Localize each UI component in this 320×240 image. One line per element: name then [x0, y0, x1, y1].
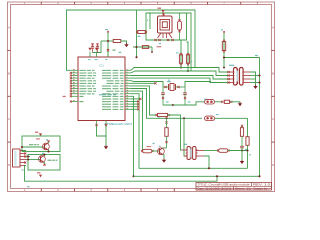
transistor T3	[158, 148, 165, 155]
ground at R1	[124, 44, 128, 47]
junction inner rail	[208, 167, 210, 169]
wire R1 to ground	[121, 41, 127, 44]
label Speaker 1	[29, 144, 39, 145]
IC1 right pin labels	[102, 70, 124, 71]
frame outer border	[8, 2, 275, 192]
label T3 value	[147, 146, 152, 147]
IC1 right pin wires	[125, 69, 131, 71]
label +5V speaker top	[35, 132, 38, 133]
junction T1 base net	[21, 146, 23, 148]
wire riser with resistor R11	[247, 118, 249, 136]
cross on reset net	[107, 49, 109, 51]
capacitor C3	[224, 100, 229, 103]
svg-text:ATMEGA8-16PI: ATMEGA8-16PI	[104, 122, 132, 126]
wire C8 to node	[228, 150, 248, 152]
top pin inner labels	[88, 58, 91, 61]
wire net row14 short	[131, 103, 138, 105]
wire R5 down through net crossing	[223, 58, 225, 68]
junction rail right	[258, 175, 260, 177]
junction at supply column	[223, 66, 225, 68]
wire net row9 to R9	[131, 91, 143, 151]
wire net row4 to U2 pin4	[131, 78, 228, 82]
transformer T2 winding right	[193, 147, 196, 160]
wire net row7 to R6 line	[131, 86, 156, 115]
wire T2 lower out to inner rail	[204, 156, 209, 168]
wire T4 base net	[26, 159, 40, 161]
wire crystal box left vertical	[136, 10, 138, 57]
IC1 bottom pin GND2	[105, 121, 107, 126]
label Q2 above crystal	[168, 80, 170, 81]
label R2 value	[138, 36, 141, 37]
junction R3 bottom	[180, 66, 182, 68]
label net below rail B	[27, 186, 30, 187]
wire T2 lower feed down	[184, 118, 187, 156]
T2 right pin stubs	[196, 150, 204, 152]
wire net row12 short	[131, 98, 140, 100]
wire reset branch horizontal	[101, 40, 113, 42]
wire gnd node feed to SJ1	[173, 102, 204, 105]
label Speaker 2	[48, 160, 58, 161]
fuse resistor R9 oval	[143, 149, 152, 153]
junction R4 bottom	[187, 70, 189, 72]
wire right column long vertical	[259, 58, 261, 177]
ground after C3	[238, 103, 242, 106]
wire net row15 short	[131, 106, 138, 108]
junction T2 lower feed	[183, 117, 185, 119]
label +5V speaker bottom	[37, 172, 40, 173]
supply arrow top of box	[161, 10, 164, 13]
wire to ground below IC1	[105, 136, 107, 146]
wire U2 right pins to ground column	[250, 72, 256, 86]
wire U2 right pins to long column	[250, 75, 260, 77]
resistor R1	[113, 40, 121, 43]
label U2	[229, 65, 234, 66]
T2 core line	[191, 148, 193, 159]
U2 left pin crosses	[227, 71, 229, 73]
B1 inner ring	[162, 22, 167, 28]
wire inner top loop	[146, 13, 191, 71]
wire speaker loop 1	[22, 136, 60, 152]
label R7	[159, 146, 161, 147]
svg-text:TITLE: Crumb8-USB audio module: TITLE: Crumb8-USB audio module	[198, 185, 251, 187]
wire stub inside box	[149, 13, 151, 29]
junction below crystal	[172, 104, 174, 106]
junction reset net	[107, 40, 109, 42]
U2 right pin stubs	[245, 71, 251, 73]
svg-text:Drawn by: Drawn by	[254, 188, 269, 190]
resistor R6	[158, 113, 168, 116]
wire node to ground	[241, 148, 243, 161]
wire rail B from X1 down and right	[25, 166, 218, 182]
ground right of U2	[253, 86, 257, 89]
B1 top pin stub	[163, 13, 165, 16]
svg-text:C: C	[8, 118, 10, 121]
wire joining bottom gnd pins	[97, 126, 107, 137]
IC1 left no-connect crosses	[70, 72, 72, 74]
wire net row13 short	[131, 101, 138, 103]
svg-text:Date: 22.03.2005 18:23:51: Date: 22.03.2005 18:23:51	[198, 187, 233, 190]
junction under R2	[135, 46, 137, 48]
wire net row8 to SJ2 line	[131, 89, 202, 119]
T2 rung marks	[186, 149, 188, 151]
wire R9 to T3 base	[152, 150, 159, 152]
resistor R2	[138, 31, 146, 34]
frame inner border	[11, 5, 272, 189]
supply arrow speaker top	[39, 133, 42, 136]
wire T2 upper out	[204, 150, 218, 152]
wire big top-left loop from IC1 pin 1	[67, 10, 196, 70]
label C1	[166, 101, 169, 102]
supply arrow AVCC	[95, 48, 98, 51]
solder jumper SJ2	[205, 116, 215, 120]
transformer U2 winding right	[240, 68, 244, 86]
wire net row6 short	[131, 82, 155, 84]
wire X1 pin3 to loop2	[26, 156, 30, 158]
capacitor C6	[96, 43, 98, 45]
wire speaker loop 2	[28, 155, 60, 171]
label T3	[153, 143, 155, 144]
B1 leg crosses	[154, 39, 156, 41]
wire net row11 to outer bottom rail	[131, 96, 134, 176]
X1 pin stubs	[20, 150, 26, 152]
net label +5V tick	[105, 29, 108, 30]
junction at outer rail	[132, 175, 134, 177]
B1 middle ring	[160, 20, 170, 31]
junction at bottom of left vertical	[135, 56, 137, 58]
solder jumper SJ1	[205, 100, 215, 104]
capacitor C1	[162, 87, 164, 93]
label T2	[184, 144, 187, 145]
wire T3 emitter to ground	[163, 155, 164, 160]
svg-text:C: C	[272, 118, 274, 121]
IC1 left pin wires	[71, 69, 79, 71]
label Q2	[167, 81, 171, 82]
capacitor C2	[184, 87, 186, 93]
wire T1 base net	[22, 146, 44, 148]
label X1	[22, 169, 24, 170]
IC1 inner value label	[99, 94, 116, 95]
label SJ1	[204, 99, 207, 100]
B1 legs	[158, 33, 173, 38]
frame row ticks left	[8, 49, 11, 51]
label B1 value	[157, 46, 162, 47]
label +5V top of box	[158, 8, 162, 9]
wire bottom outer rail	[134, 175, 260, 177]
resistor R7 vertical	[165, 121, 167, 123]
label R3	[176, 52, 179, 53]
T1 collector stub	[47, 142, 50, 144]
wire cap ground join	[163, 104, 185, 106]
connector X1 body	[13, 149, 21, 167]
junction at R5 bottom	[223, 56, 225, 58]
T2 inner teal marks	[190, 149, 192, 158]
capacitor C5	[91, 43, 93, 45]
wire SJ2 line continues to riser	[215, 117, 248, 119]
frame column ticks bottom	[40, 189, 42, 192]
resistor R5	[222, 42, 225, 51]
net label above R5	[221, 29, 223, 30]
svg-text:D: D	[8, 164, 10, 167]
supply net vertical above IC1	[107, 32, 109, 58]
wire net row2 to U2 pin2	[131, 71, 228, 76]
wire stub down from R8 line	[151, 47, 153, 52]
U2 left pin stubs	[228, 71, 233, 73]
wire net row1 to U2 pin1	[131, 68, 228, 73]
IC1 microcontroller ATMEGA8 box	[78, 57, 125, 121]
IC1 left pin AVCC	[71, 95, 79, 97]
label T4	[42, 153, 44, 154]
U2 inner teal marks	[236, 71, 238, 82]
frame column ticks top	[40, 2, 42, 5]
label R4	[191, 61, 193, 62]
supply arrow below speaker box	[39, 175, 42, 178]
IC1 bottom pin GND	[96, 121, 98, 126]
title block	[196, 182, 272, 190]
wire R4 column	[187, 42, 189, 71]
wire net row10 to inner bottom rail	[131, 94, 248, 169]
wire reset branch left down	[93, 41, 102, 53]
transformer T2 winding left	[187, 147, 190, 160]
resistor R8	[142, 46, 148, 49]
IC1 top pin AVCC	[96, 52, 98, 58]
resistor R4	[186, 55, 189, 64]
T1 emitter to loop bottom	[47, 150, 50, 152]
transistor T4	[39, 156, 46, 163]
U2 rung marks	[232, 71, 235, 73]
X1 pin crosses	[24, 152, 26, 154]
junction node C9	[241, 149, 243, 151]
transformer U2 winding left	[234, 68, 238, 86]
capacitor C8 oval	[219, 149, 228, 153]
supply column R5 vertical	[223, 32, 225, 58]
junction under R8 line	[151, 51, 153, 53]
svg-text:REV: 1.0: REV: 1.0	[253, 185, 271, 187]
label net speaker top	[36, 138, 40, 139]
wire under R2 horizontal	[133, 46, 152, 48]
svg-text:D: D	[272, 164, 274, 167]
IC1 top pin VCC	[89, 52, 91, 58]
label near riser	[249, 154, 251, 155]
supply arrow VCC	[88, 48, 91, 51]
label 10k teal	[119, 52, 122, 53]
junction riser	[246, 149, 248, 151]
T2 left pin stubs	[181, 149, 187, 151]
ground below T3	[162, 160, 166, 163]
frame row ticks right	[272, 49, 275, 51]
U2 core lines	[237, 69, 239, 85]
wire net row16 short	[131, 108, 138, 110]
wire X1 pin1 to loop1	[22, 150, 26, 152]
IC1 right pin numbers	[127, 68, 128, 71]
resistor R3	[179, 55, 182, 64]
wire T3 collector to R7 column	[163, 147, 167, 149]
wire +5V node to right column	[224, 57, 260, 59]
wire net row5 to XTAL1	[131, 81, 163, 87]
wire SJ1 to C3	[215, 101, 222, 103]
label C9	[245, 149, 247, 150]
junction rail B	[216, 175, 218, 177]
transistor T1	[43, 143, 50, 150]
IC1 top pin RESET stub	[107, 52, 109, 58]
T4 emitter stub	[43, 162, 46, 164]
label C2	[188, 101, 191, 102]
crystal Q2	[168, 84, 170, 90]
capacitor C9	[240, 145, 244, 147]
label R6 value	[158, 117, 160, 118]
wire XTAL2 leg up and right	[185, 82, 211, 88]
IC1 left pin numbers	[73, 68, 75, 71]
junction R7 top	[165, 117, 167, 119]
ground at C9 node	[240, 161, 244, 164]
T4 collector stub	[43, 155, 46, 156]
svg-text:IC1: IC1	[100, 64, 105, 68]
capacitor C7 electrolytic	[179, 13, 181, 21]
IC1 left pin AGND	[71, 101, 79, 103]
wire C3 to ground	[231, 102, 241, 103]
wire R3 column	[180, 40, 182, 68]
ground below IC1	[104, 146, 108, 149]
IC1 left pin labels	[80, 70, 95, 71]
label +5V right of top pins	[113, 50, 116, 51]
label T1	[46, 139, 48, 140]
label SJ2	[216, 114, 219, 115]
svg-text:Sheet: 1/1: Sheet: 1/1	[235, 187, 252, 190]
label B1 name	[159, 43, 161, 44]
quartz oscillator B1 outer can	[158, 16, 173, 33]
net label +5V right column	[255, 55, 258, 56]
resistor R10	[241, 125, 243, 127]
wire R6 to T2 upper feed	[167, 115, 181, 150]
wire net row3 to U2 pin3	[131, 76, 228, 80]
